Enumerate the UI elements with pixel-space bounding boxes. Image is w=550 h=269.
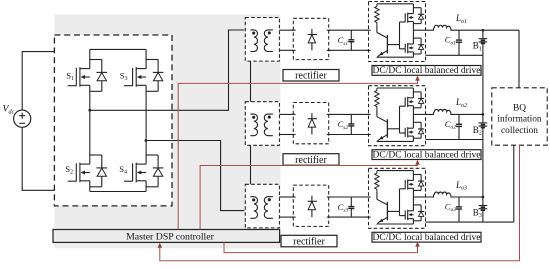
capacitor Cs3 (350, 197, 352, 206)
Master DSP controller box (53, 230, 280, 243)
top rail in DC/DC block 1 (377, 3, 414, 5)
output bottom rail 3 (426, 221, 514, 223)
svg-text:BQ: BQ (513, 104, 526, 114)
full-bridge inverter box (54, 35, 172, 206)
capacitor Cs1 (350, 30, 352, 39)
rectifier 2 diode (311, 113, 313, 119)
wire rectifier 3 to DC/DC top (329, 196, 369, 198)
rectifier 3 input stubs (292, 196, 296, 198)
upper MOSFET M3 in DC/DC block 2 (400, 92, 425, 108)
top rail in DC/DC block 3 (377, 170, 414, 172)
rectifier 1 input stubs (292, 29, 296, 31)
transistor Q2 (BJT) (376, 109, 378, 117)
lower MOSFET M6 drain wire (412, 197, 414, 211)
svg-text:Master DSP controller: Master DSP controller (126, 231, 215, 242)
transformer T3 primary winding (250, 197, 257, 219)
wire transformer T2 to rectifier top (279, 113, 293, 115)
transformer T1 secondary dot (268, 31, 271, 34)
gate bus in DC/DC block 2 (399, 106, 401, 133)
DC/DC block 1 input stubs (367, 29, 371, 31)
DC/DC block 3 box (369, 168, 426, 228)
lower MOSFET M4 drain wire (412, 114, 414, 128)
wire Vdc+ to bridge (22, 52, 54, 111)
transformer T2 primary winding (250, 114, 257, 136)
battery B1 junction (482, 29, 485, 32)
svg-text:DC/DC local balanced drive: DC/DC local balanced drive (373, 150, 481, 160)
svg-text:Cs1: Cs1 (338, 35, 349, 47)
wire battery B2 to B3 series link (482, 140, 484, 198)
upper MOSFET M1 drain wire (412, 4, 414, 14)
switch S3 (MOSFET with body diode) (124, 49, 163, 140)
resistor in DC/DC block 1 (375, 4, 379, 25)
svg-text:collection: collection (501, 126, 538, 136)
red arrow into drive 1 (415, 76, 420, 81)
primary-side shaded region (54, 14, 280, 248)
wire transformer T3 to rectifier top (279, 196, 293, 198)
red feedback wire BQ to DSP (160, 145, 520, 261)
inductor Lo2 (426, 109, 460, 114)
svg-text:information: information (497, 114, 542, 125)
transformer T2 secondary dot (268, 116, 271, 119)
red control wire DSP to drive 2 (200, 164, 417, 229)
upper MOSFET M1 in DC/DC block 1 (400, 8, 425, 24)
svg-text:Lo2: Lo2 (455, 97, 467, 109)
transformer T1 secondary winding (264, 30, 273, 52)
svg-text:DC/DC local balanced drive: DC/DC local balanced drive (373, 233, 481, 243)
inductor Lo3 (426, 192, 460, 197)
svg-text:rectifier: rectifier (295, 71, 327, 82)
rectifier 1 diode (311, 29, 313, 35)
BQ information collection box (492, 88, 547, 145)
wire rectifier 3 to DC/DC bottom (329, 216, 369, 218)
battery B1 (482, 30, 484, 39)
svg-text:Co3: Co3 (445, 201, 456, 213)
capacitor Co1 (458, 30, 460, 40)
svg-text:DC/DC local balanced drive: DC/DC local balanced drive (373, 66, 481, 76)
capacitor Co2 (458, 114, 460, 124)
lower MOSFET M4 source wire (412, 136, 414, 141)
lower MOSFET M2 source wire (412, 52, 414, 57)
red control wire DSP to drive 3 (224, 242, 418, 252)
battery B3 (482, 197, 484, 206)
upper MOSFET M3 drain wire (412, 88, 414, 98)
transformer T3 primary dot (252, 198, 255, 201)
node A junction (88, 109, 91, 112)
svg-text:rectifier: rectifier (293, 236, 325, 247)
wire bridge output A to T1 primary (90, 30, 244, 110)
transformer T1 primary dot (252, 32, 255, 35)
red arrow into DSP (158, 243, 163, 248)
upper MOSFET M5 source wire (412, 188, 414, 197)
transformer T3 secondary winding (264, 197, 273, 219)
midpoint wire out of DC/DC block 3 (413, 196, 425, 198)
red arrow into drive 3 (415, 242, 420, 247)
capacitor Cs2 (350, 114, 352, 123)
transformer T1 box (245, 18, 279, 62)
rectifier 2 box (293, 103, 328, 144)
midpoint wire out of DC/DC block 1 (413, 29, 425, 31)
top rail in DC/DC block 2 (377, 87, 414, 89)
svg-text:rectifier: rectifier (295, 155, 327, 166)
svg-text:Cs3: Cs3 (338, 202, 349, 214)
upper MOSFET M5 drain wire (412, 171, 414, 181)
switch S4 (MOSFET with body diode) (124, 141, 163, 192)
node B junction (145, 139, 148, 142)
wire rectifier 1 to DC/DC bottom (329, 49, 369, 51)
svg-text:Lo1: Lo1 (455, 13, 467, 25)
midpoint wire out of DC/DC block 2 (413, 113, 425, 115)
transistor Q1 (BJT) (376, 25, 378, 33)
resistor in DC/DC block 2 (375, 88, 379, 109)
wire rectifier 1 to DC/DC top (329, 29, 369, 31)
lower MOSFET M6 in DC/DC block 3 (400, 205, 425, 221)
wire transformer T2 to rectifier bottom (279, 134, 293, 136)
gate bus in DC/DC block 3 (399, 189, 401, 216)
wire bridge output B to T3 primary (146, 141, 244, 211)
rectifier 3 output stubs (327, 196, 331, 198)
transformer T1 primary winding (250, 30, 257, 52)
rectifier 1 box (293, 18, 328, 59)
rectifier 3 diode (311, 196, 313, 202)
output top rail 1 (459, 29, 519, 31)
output bottom rail 1 (426, 54, 483, 56)
output bottom rail 2 (426, 139, 483, 141)
rectifier 3 label box (281, 235, 337, 247)
rectifier 1 label box (283, 70, 339, 82)
wire BQ bottom to row3 bottom rail (513, 145, 515, 222)
wire row1 sense to BQ top (518, 30, 520, 88)
gate bus in DC/DC block 1 (399, 22, 401, 49)
wire rectifier 2 to DC/DC top (329, 113, 369, 115)
transformer T3 box (245, 184, 279, 228)
wire rectifier 2 to DC/DC bottom (329, 134, 369, 136)
resistor in DC/DC block 3 (375, 171, 379, 192)
svg-text:Cs2: Cs2 (338, 119, 349, 131)
capacitor Co3 (458, 197, 460, 207)
battery B2 junction (482, 113, 485, 116)
red arrow into drive 2 (415, 160, 420, 165)
switch S1 (MOSFET with body diode) (68, 49, 107, 110)
battery B2 (482, 114, 484, 123)
rectifier 2 label box (283, 154, 339, 166)
DC/DC local balanced drive label box 2 (372, 150, 481, 160)
wire transformer T1 to rectifier bottom (279, 49, 293, 51)
battery B3 junction (482, 196, 485, 199)
transformer T3 secondary dot (268, 198, 271, 201)
wire T1 primary to T2 primary (250, 61, 252, 102)
upper MOSFET M1 source wire (412, 22, 414, 31)
DC/DC local balanced drive label box 3 (372, 232, 481, 242)
wire T2 primary to T3 primary (250, 145, 252, 184)
rectifier 1 output stubs (327, 29, 331, 31)
transformer T2 box (245, 102, 279, 146)
lower MOSFET M2 drain wire (412, 30, 414, 44)
switch S2 (MOSFET with body diode) (68, 110, 107, 191)
svg-text:Co1: Co1 (445, 35, 456, 47)
inductor Lo1 (426, 25, 460, 30)
lower MOSFET M6 source wire (412, 219, 414, 224)
rectifier 2 output stubs (327, 113, 331, 115)
svg-text:Lo3: Lo3 (455, 180, 467, 192)
DC/DC block 2 box (369, 86, 426, 146)
DC/DC local balanced drive label box 1 (372, 66, 481, 76)
red control wire DSP to drive 1 (178, 80, 417, 230)
DC/DC block 3 input stubs (367, 196, 371, 198)
wire transformer T1 to rectifier top (279, 29, 293, 31)
DC/DC block 1 box (369, 2, 426, 62)
svg-text:Vdc: Vdc (3, 104, 15, 116)
bridge bottom rail (90, 191, 146, 193)
bridge top rail (90, 48, 146, 50)
rectifier 3 box (293, 185, 328, 226)
lower MOSFET M2 in DC/DC block 1 (400, 38, 425, 54)
voltage source Vdc (14, 110, 31, 127)
transformer T2 secondary winding (264, 114, 273, 136)
wire transformer T3 to rectifier bottom (279, 216, 293, 218)
output top rail 3 (459, 196, 483, 198)
DC/DC block 2 input stubs (367, 113, 371, 115)
wire battery B1 to B2 series link (482, 55, 484, 114)
transformer T2 primary dot (252, 116, 255, 119)
lower MOSFET M4 in DC/DC block 2 (400, 122, 425, 138)
rectifier 2 input stubs (292, 113, 296, 115)
wire Vdc- to bridge (22, 127, 54, 190)
transistor Q3 (BJT) (376, 192, 378, 200)
output top rail 2 (459, 113, 483, 115)
upper MOSFET M3 source wire (412, 106, 414, 115)
upper MOSFET M5 in DC/DC block 3 (400, 175, 425, 191)
svg-text:Co2: Co2 (445, 119, 456, 131)
